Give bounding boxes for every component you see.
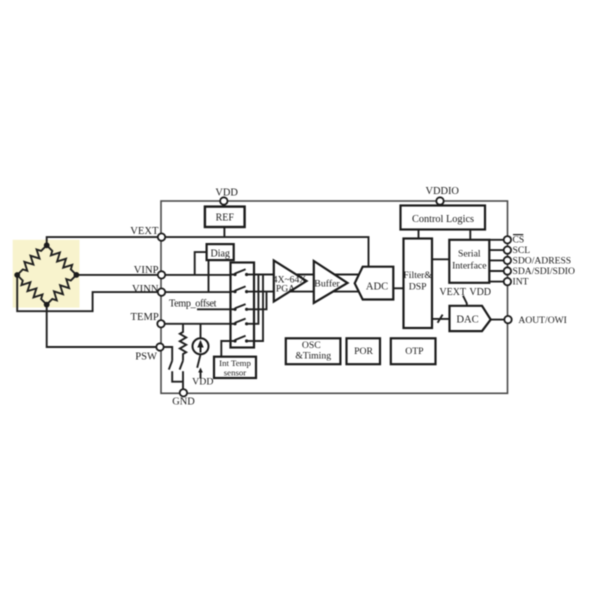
wire TEMP rail to current source — [200, 324, 202, 339]
wire Serial Interface pin stub — [489, 281, 507, 283]
pin AOUT — [504, 316, 511, 323]
svg-text:PGA: PGA — [276, 284, 295, 295]
sensor bridge highlight — [13, 240, 80, 308]
svg-text:SDA/SDI/SDIO: SDA/SDI/SDIO — [513, 266, 575, 277]
wire Serial Interface pin stub — [489, 239, 507, 241]
pin SDO — [504, 257, 511, 264]
wire switch row3 output — [254, 292, 267, 310]
svg-text:Serial: Serial — [458, 249, 481, 260]
node bridge left — [14, 272, 20, 278]
svg-text:SDO/ADRESS: SDO/ADRESS — [513, 256, 572, 267]
svg-text:TEMP: TEMP — [131, 312, 159, 323]
block Serial Interface — [449, 240, 489, 283]
svg-text:REF: REF — [216, 212, 235, 223]
wire switch row1 output to ADC (PGA + input) — [254, 274, 361, 276]
wire VINN pin to switch matrix — [162, 291, 231, 293]
ADC block — [355, 267, 394, 300]
wire VINP pin to switch matrix — [162, 274, 231, 276]
resistor bridge R_top_left — [17, 245, 47, 275]
svg-text:VINN: VINN — [132, 284, 159, 295]
wire Filter&DSP to DAC (bus with slash) — [432, 318, 450, 320]
wire Int Temp sensor to switch matrix — [221, 341, 230, 357]
svg-text:sensor: sensor — [224, 368, 247, 378]
DAC block — [450, 306, 491, 331]
block Control Logics — [401, 206, 486, 230]
svg-text:&Timing: &Timing — [295, 350, 331, 361]
svg-text:VDD: VDD — [192, 376, 213, 387]
switch S7 blade — [180, 361, 183, 370]
wire VDDIO pin to Control Logics — [439, 201, 441, 207]
wire bridge top node to VEXT pin — [47, 237, 162, 245]
svg-text:Control Logics: Control Logics — [412, 214, 474, 225]
svg-text:DAC: DAC — [456, 314, 478, 325]
resistor pulldown (TEMP to GND) — [180, 330, 186, 357]
svg-text:OSC: OSC — [302, 340, 321, 351]
pin CS — [504, 236, 511, 243]
resistor bridge R_top_right — [47, 245, 77, 275]
arrow to VDD supply — [200, 372, 202, 379]
switch S1 — [231, 269, 255, 276]
wire supply select to DAC — [463, 296, 467, 306]
svg-text:PSW: PSW — [135, 351, 157, 362]
pin PSW — [156, 343, 163, 350]
wire Serial Interface pin stub — [489, 249, 507, 251]
wire Serial Interface pin stub — [489, 259, 507, 261]
wire Temp_offset to switch matrix — [197, 308, 231, 310]
svg-text:Int Temp: Int Temp — [219, 358, 251, 368]
svg-text:VEXT: VEXT — [130, 226, 159, 237]
svg-text:ADC: ADC — [366, 282, 388, 293]
switch S3 — [231, 304, 255, 311]
wire switch S6 to GND junction — [172, 371, 183, 382]
pin GND — [180, 389, 187, 396]
op-amp PGA (4X~64X) — [273, 261, 307, 302]
switch matrix box — [231, 263, 255, 348]
block OSC &Timing — [286, 338, 341, 364]
wire switch row5 output — [254, 275, 263, 342]
block POR — [347, 338, 381, 364]
svg-text:Temp_offset: Temp_offset — [169, 299, 217, 310]
svg-text:VEXT: VEXT — [439, 287, 466, 298]
op-amp Buffer — [314, 261, 348, 303]
wire ADC to Filter&DSP — [393, 287, 403, 289]
svg-text:DSP: DSP — [409, 282, 427, 293]
svg-text:CS: CS — [513, 234, 525, 245]
wire VDD pin to REF — [223, 201, 225, 207]
node bridge bottom — [44, 302, 50, 308]
wire switch S7 to GND pin — [182, 371, 184, 389]
wire REF to VEXT rail — [223, 227, 225, 238]
wire PSW pin to switch S6 — [160, 347, 172, 361]
switch S2 — [231, 286, 255, 293]
pin VINP — [158, 271, 165, 278]
svg-text:VDD: VDD — [469, 287, 491, 298]
svg-text:Diag: Diag — [210, 249, 229, 260]
svg-text:INT: INT — [513, 277, 529, 288]
current source I1 — [193, 338, 209, 354]
wire TEMP rail to pulldown resistor — [182, 324, 184, 330]
REF block — [205, 207, 245, 227]
switch S5 — [231, 336, 255, 343]
wire Control Logics to Filter&DSP — [418, 230, 420, 239]
wire bridge right node to VINP pin — [76, 274, 161, 276]
wire bridge left node to VINN pin — [17, 275, 161, 311]
wire switch row2 output to ADC (PGA - input) — [254, 291, 361, 293]
wire Filter&DSP to Serial Interface — [432, 258, 449, 260]
svg-text:Filter&: Filter& — [403, 270, 432, 281]
svg-text:OTP: OTP — [405, 346, 423, 357]
svg-text:Buffer: Buffer — [314, 279, 340, 290]
wire resistor to switch S7 — [182, 357, 184, 361]
wire switch row4 output — [254, 275, 258, 324]
resistor bridge R_bottom_right — [47, 275, 77, 305]
svg-text:Interface: Interface — [452, 261, 486, 272]
wire Serial Interface pin stub — [489, 270, 507, 272]
pin SDA — [504, 267, 511, 274]
wire DAC to AOUT pin — [491, 319, 508, 321]
block Filter&DSP — [403, 239, 432, 329]
wire Control Logics to Serial Interface — [469, 230, 471, 240]
pin VDD — [220, 197, 227, 204]
resistor bridge R_bottom_left — [17, 275, 47, 305]
svg-text:VDD: VDD — [215, 187, 238, 198]
svg-text:VDDIO: VDDIO — [425, 186, 459, 197]
wire Diag to VINP line — [195, 252, 207, 275]
svg-text:GND: GND — [172, 397, 195, 408]
pin SCL — [504, 246, 511, 253]
switch S4 — [231, 319, 255, 326]
pin INT — [504, 278, 511, 285]
wire bridge bottom node to PSW pin — [47, 305, 160, 347]
switch S8 blade (current source to VDD) — [197, 354, 200, 367]
wire Diag to VINN line — [208, 260, 210, 292]
svg-text:VINP: VINP — [134, 265, 159, 276]
pin VDDIO — [436, 197, 443, 204]
svg-text:AOUT/OWI: AOUT/OWI — [518, 315, 567, 326]
svg-text:POR: POR — [354, 346, 373, 357]
block OTP — [391, 338, 436, 364]
svg-text:SCL: SCL — [513, 245, 531, 256]
node bridge top — [44, 242, 50, 248]
pin VEXT — [158, 233, 165, 240]
pin TEMP — [157, 320, 164, 327]
Diag block — [207, 244, 234, 260]
pin VINN — [158, 288, 165, 295]
overline on CS — [513, 234, 523, 236]
switch S6 blade (PSW) — [169, 361, 172, 370]
IC boundary box — [161, 201, 508, 393]
wire VEXT rail to ADC reference — [162, 237, 369, 267]
node bridge right — [74, 272, 80, 278]
block Int Temp sensor — [214, 357, 256, 378]
wire TEMP pin to switch matrix — [161, 323, 231, 325]
